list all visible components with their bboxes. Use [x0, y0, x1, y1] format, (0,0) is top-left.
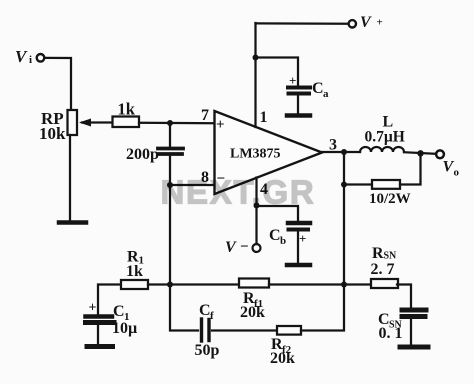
node damping left [341, 182, 347, 188]
svg-text:+: + [377, 17, 383, 29]
wire L to Vo [404, 152, 436, 154]
svg-text:−: − [240, 239, 249, 255]
wire damping left [344, 152, 372, 185]
svg-text:20k: 20k [270, 350, 295, 367]
wire damping right [400, 153, 421, 185]
svg-text:C: C [199, 302, 211, 319]
svg-text:R: R [372, 245, 384, 262]
terminal V- [253, 244, 261, 252]
svg-text:20k: 20k [240, 304, 265, 321]
node +input [167, 120, 173, 126]
capacitor Cf 50p [200, 319, 203, 341]
node output [341, 149, 347, 155]
wire RSN to CSN [397, 285, 411, 309]
node V+ branch [253, 55, 259, 61]
svg-text:C: C [113, 303, 125, 320]
resistor 1k [113, 117, 140, 128]
svg-text:V: V [15, 47, 28, 66]
svg-text:10µ: 10µ [112, 320, 137, 337]
svg-text:0. 1: 0. 1 [379, 325, 403, 342]
svg-text:NEXT.GR: NEXT.GR [161, 174, 316, 211]
svg-text:+: + [299, 231, 306, 246]
wire node A down to Cf [170, 285, 198, 331]
svg-text:0.7µH: 0.7µH [365, 129, 405, 146]
svg-text:10k: 10k [39, 124, 66, 143]
resistor R1 1k [121, 280, 148, 289]
node -input [167, 182, 173, 188]
svg-text:f: f [210, 310, 214, 322]
pin 1 wire [254, 23, 256, 127]
ground (Cb) [287, 263, 310, 268]
wire -input [170, 184, 214, 186]
pin 4 wire [255, 178, 257, 206]
node L right [417, 150, 423, 156]
capacitor C1 10u [86, 314, 113, 319]
output wire pin3 [322, 151, 360, 153]
ground (Ca) [287, 113, 310, 118]
node V- [254, 203, 260, 209]
svg-text:3: 3 [329, 137, 337, 154]
svg-text:o: o [454, 167, 460, 179]
capacitor 200p [169, 123, 171, 147]
svg-text:+: + [89, 301, 97, 316]
wire RP to ground [69, 135, 71, 221]
ground (C1) [87, 344, 113, 349]
wire Vi to RP top [44, 58, 71, 110]
wire node to Cb [257, 206, 299, 221]
inductor L 0.7uH [360, 147, 404, 152]
wire node B to RSN [344, 283, 371, 285]
svg-text:+: + [289, 73, 296, 88]
svg-text:200p: 200p [126, 146, 159, 163]
node B feedback right [341, 282, 347, 288]
svg-text:LM3875: LM3875 [230, 147, 281, 162]
terminal V+ [349, 20, 356, 27]
svg-text:2. 7: 2. 7 [371, 261, 395, 278]
svg-text:1k: 1k [118, 100, 136, 119]
svg-text:b: b [280, 235, 286, 247]
wire node to Ca [256, 58, 299, 86]
svg-text:SN: SN [384, 251, 398, 262]
resistor Rf1 20k [239, 279, 269, 288]
ground (CSN) [400, 345, 428, 350]
wire feedback drop [343, 185, 345, 285]
svg-text:C: C [269, 227, 281, 244]
wire Rf2 to node B [301, 285, 344, 331]
ground (RP) [59, 220, 86, 225]
wire -input drop to feedback node [169, 185, 171, 285]
terminal Vo [436, 150, 444, 158]
svg-text:i: i [29, 54, 32, 66]
svg-text:V: V [360, 14, 372, 31]
wire R1 to node A [148, 283, 170, 285]
node A feedback [167, 282, 173, 288]
svg-text:V: V [225, 239, 237, 256]
svg-text:1k: 1k [126, 263, 143, 280]
wire node A to Rf1 [170, 283, 239, 285]
terminal Vi [37, 54, 45, 62]
resistor Rf2 20k [277, 326, 301, 335]
svg-text:a: a [323, 88, 329, 100]
V+ rail wire [256, 22, 349, 25]
wire node to V- terminal [255, 206, 257, 245]
svg-text:50p: 50p [195, 342, 220, 359]
svg-text:+: + [216, 117, 225, 133]
svg-text:10/2W: 10/2W [369, 191, 411, 207]
capacitor Cb [288, 221, 310, 226]
wire Rf1 to node B [269, 283, 344, 285]
svg-text:1: 1 [260, 109, 268, 126]
resistor 10/2W [372, 180, 400, 189]
svg-text:C: C [312, 80, 324, 97]
wire C1 to R1 [98, 285, 121, 315]
wiper arrow [82, 121, 112, 123]
resistor RSN 2.7 [371, 279, 398, 288]
svg-text:7: 7 [201, 107, 209, 124]
op-amp U1 LM3875 [215, 111, 323, 194]
wire 1k to pin7 [139, 122, 214, 125]
wire Cf to Rf2 [212, 329, 277, 331]
capacitor CSN 0.1 [402, 308, 426, 313]
potentiometer RP 10k [68, 110, 78, 135]
capacitor Ca [288, 86, 310, 90]
